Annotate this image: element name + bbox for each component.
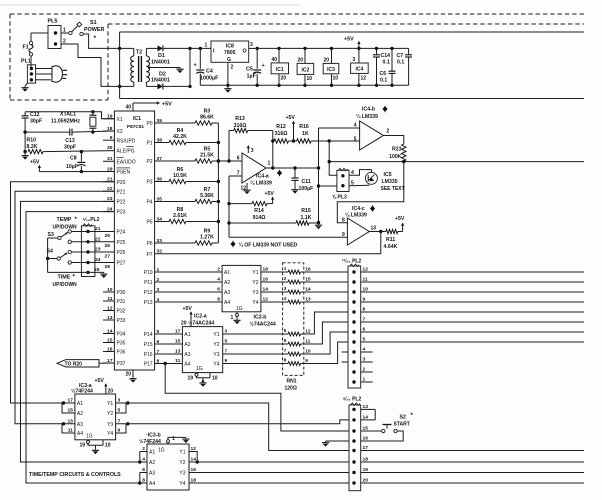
svg-text:1µF: 1µF bbox=[247, 74, 257, 80]
svg-text:D1: D1 bbox=[158, 53, 165, 59]
svg-text:P0: P0 bbox=[146, 121, 152, 127]
svg-text:C7: C7 bbox=[397, 53, 404, 59]
svg-text:R4: R4 bbox=[177, 128, 184, 134]
resistor R15 1.1K bbox=[229, 222, 296, 224]
wire PL2 pin 25 common bbox=[48, 271, 104, 273]
IC3-a Y1/Y2 join bbox=[116, 403, 126, 413]
wire R16 node down to PL3 bbox=[329, 141, 337, 175]
IC3-b A1 jog bbox=[140, 451, 147, 453]
svg-text:R12: R12 bbox=[276, 124, 286, 130]
op-amp IC4-c 1/4 LM339 bbox=[347, 218, 369, 245]
wire IC3-a Y3Y4 to PL2 pin 14 bbox=[116, 420, 349, 424]
svg-text:1N4001: 1N4001 bbox=[151, 60, 170, 66]
regulator IC8 7805 bbox=[211, 41, 249, 62]
IC3-a A2 jog bbox=[62, 403, 75, 413]
svg-text:P21: P21 bbox=[117, 189, 126, 195]
svg-text:19: 19 bbox=[80, 443, 86, 449]
svg-text:R13: R13 bbox=[235, 116, 245, 122]
svg-text:2: 2 bbox=[231, 65, 234, 71]
svg-text:17: 17 bbox=[175, 329, 181, 335]
wire IC4-a pin7 vertical bbox=[228, 176, 230, 237]
buffer IC2-b 1/2 74AC244 bbox=[222, 265, 261, 311]
IC2-b pin 1 enable to ground bbox=[236, 312, 238, 314]
svg-text:⁸⁄₂₅ PL2: ⁸⁄₂₅ PL2 bbox=[343, 397, 361, 403]
capacitor C13 30pF bbox=[69, 129, 71, 136]
svg-text:23: 23 bbox=[95, 247, 101, 253]
wire P22 bus bbox=[21, 201, 148, 462]
op-amp IC4-a 1/4 LM339 bbox=[242, 153, 266, 183]
wire P16 to IC2-a A3 bbox=[155, 353, 183, 355]
svg-text:A1: A1 bbox=[224, 270, 230, 276]
svg-text:C14: C14 bbox=[381, 53, 391, 59]
svg-text:RN1: RN1 bbox=[287, 379, 297, 385]
svg-text:C11: C11 bbox=[302, 179, 311, 185]
wire IC4-b pin 4 bbox=[319, 127, 360, 129]
svg-text:R14: R14 bbox=[254, 208, 264, 214]
wire reset row to PSEN bbox=[39, 171, 114, 173]
staircase RN1 to PL2 pins 8-5 bbox=[304, 312, 348, 334]
bypass position IC2 bbox=[303, 47, 306, 50]
wire PL5 pin1 to S1 bbox=[61, 32, 69, 34]
svg-text:316Ω: 316Ω bbox=[275, 131, 288, 137]
svg-text:100µF: 100µF bbox=[299, 186, 314, 192]
wire secondary bottom to D2 bbox=[145, 82, 147, 86]
note 1/4 LM339 not used bbox=[231, 241, 235, 247]
svg-text:IC1: IC1 bbox=[133, 116, 141, 122]
svg-text:1.1K: 1.1K bbox=[301, 215, 312, 221]
IC4-a pin 3 arrow bbox=[247, 146, 249, 153]
svg-text:8: 8 bbox=[142, 478, 145, 484]
svg-text:1.27K: 1.27K bbox=[200, 235, 214, 241]
wire IC2-b Y4 to RN1 bbox=[261, 301, 283, 303]
svg-text:7: 7 bbox=[284, 348, 287, 353]
svg-text:25: 25 bbox=[94, 267, 100, 273]
svg-text:A4: A4 bbox=[184, 362, 190, 368]
svg-text:A2: A2 bbox=[77, 411, 83, 417]
resistor ladder summing bus bbox=[217, 123, 219, 243]
svg-text:3: 3 bbox=[353, 57, 356, 63]
ground at R15 bbox=[315, 224, 322, 230]
svg-text:5: 5 bbox=[354, 137, 357, 143]
svg-text:A3: A3 bbox=[224, 290, 230, 296]
wire P11 to IC2-b A2 bbox=[155, 281, 223, 283]
svg-text:20: 20 bbox=[108, 389, 114, 395]
svg-text:+5V: +5V bbox=[183, 306, 193, 312]
svg-text:TEMP: TEMP bbox=[57, 217, 72, 223]
capacitor C14 0.1 bbox=[375, 47, 378, 50]
resistor R5 21.5K bbox=[155, 160, 195, 162]
svg-text:P32: P32 bbox=[117, 309, 126, 315]
svg-text:0.1: 0.1 bbox=[380, 78, 387, 84]
svg-text:P31: P31 bbox=[117, 299, 126, 305]
wire PL2 pin 24 to IC1 bbox=[71, 262, 114, 264]
wire IC2-a Y4 to RN1 bbox=[223, 363, 283, 365]
svg-text:P36: P36 bbox=[117, 350, 126, 356]
svg-text:6: 6 bbox=[284, 338, 287, 343]
resistor R4 42.2K bbox=[155, 142, 169, 144]
svg-text:0.1: 0.1 bbox=[397, 60, 404, 66]
+5V at R12/R16 bbox=[293, 122, 295, 141]
svg-text:S2: S2 bbox=[400, 415, 406, 421]
svg-text:Y1: Y1 bbox=[252, 270, 258, 276]
buffer IC3-a 1/2 74F244 bbox=[75, 394, 116, 440]
svg-text:30pF: 30pF bbox=[64, 145, 76, 151]
ground rail of power supply bbox=[200, 84, 408, 86]
svg-text:P14: P14 bbox=[144, 332, 153, 338]
svg-text:P5: P5 bbox=[146, 220, 152, 226]
ground at IC1 pin 20 bbox=[129, 377, 136, 383]
dashed enclosure border second line bbox=[108, 23, 584, 25]
PL2 pins 4-1 stubs bbox=[361, 351, 373, 353]
svg-text:10µF: 10µF bbox=[66, 164, 78, 170]
svg-text:R7: R7 bbox=[204, 187, 211, 193]
svg-text:IC2: IC2 bbox=[302, 68, 310, 74]
buffer IC3-b 1/2 74F244 bbox=[147, 444, 189, 490]
svg-text:R8: R8 bbox=[177, 207, 184, 213]
svg-text:P30: P30 bbox=[117, 290, 126, 296]
wire IC4-b output to R23 bbox=[383, 136, 403, 145]
svg-text:Y4: Y4 bbox=[252, 300, 258, 306]
wire IC4-c pin 9 bbox=[229, 236, 347, 238]
capacitor C4 1000uF bbox=[199, 47, 202, 50]
svg-text:24: 24 bbox=[95, 257, 101, 263]
svg-text:1G: 1G bbox=[236, 306, 243, 312]
svg-text:10: 10 bbox=[105, 443, 111, 449]
svg-text:30pF: 30pF bbox=[30, 119, 42, 125]
wire secondary top to D1 bbox=[145, 48, 147, 56]
svg-text:6: 6 bbox=[217, 287, 220, 293]
wire PL1 pins to mains plug bbox=[36, 68, 52, 70]
PL2 pins 17-20 output wires bbox=[361, 450, 584, 452]
svg-text:IC5: IC5 bbox=[384, 172, 392, 178]
svg-text:15: 15 bbox=[175, 339, 181, 345]
wire D1 output to IC8 input bbox=[163, 47, 211, 49]
svg-text:Y1: Y1 bbox=[213, 332, 219, 338]
bypass position IC3 bbox=[330, 47, 333, 50]
svg-text:2: 2 bbox=[217, 267, 220, 273]
svg-text:Y2: Y2 bbox=[107, 411, 113, 417]
svg-text:A3: A3 bbox=[149, 471, 155, 477]
svg-text:A4: A4 bbox=[149, 481, 155, 487]
svg-text:P35: P35 bbox=[117, 341, 126, 347]
svg-text:120Ω: 120Ω bbox=[285, 386, 297, 392]
svg-text:7: 7 bbox=[363, 317, 366, 323]
svg-text:C5: C5 bbox=[246, 67, 253, 73]
svg-text:3: 3 bbox=[250, 42, 253, 48]
svg-text:20: 20 bbox=[298, 58, 304, 64]
svg-text:R3: R3 bbox=[204, 109, 211, 115]
flag TO R20 bbox=[57, 360, 99, 367]
svg-text:Y1: Y1 bbox=[179, 450, 185, 456]
svg-text:P10: P10 bbox=[144, 270, 153, 276]
svg-text:+5V: +5V bbox=[95, 378, 105, 384]
svg-text:11: 11 bbox=[175, 358, 180, 364]
wire X2 row with C13 bbox=[23, 130, 26, 133]
wire P14 to IC2-a A1 bbox=[155, 333, 183, 335]
svg-text:10: 10 bbox=[307, 76, 313, 82]
resistor R3 86.6K bbox=[155, 122, 195, 124]
svg-text:START: START bbox=[394, 422, 410, 428]
svg-text:2: 2 bbox=[363, 367, 366, 373]
svg-text:P13: P13 bbox=[144, 300, 153, 306]
svg-text:¼ LM339: ¼ LM339 bbox=[345, 212, 367, 219]
resistor R9 1.27K bbox=[155, 242, 195, 244]
svg-text:Y4: Y4 bbox=[107, 431, 113, 437]
capacitor C11 100uF bbox=[294, 168, 296, 178]
capacitor C5 1uF bbox=[256, 47, 259, 50]
wire F1 to PL5 pin1 bbox=[31, 32, 48, 34]
wire ladder to IC4-a pin 6 bbox=[218, 160, 242, 162]
svg-text:⅞ PL3: ⅞ PL3 bbox=[332, 195, 347, 201]
svg-text:IC3: IC3 bbox=[327, 67, 335, 73]
resistor R7 5.36K bbox=[155, 201, 195, 203]
svg-text:+5V: +5V bbox=[162, 102, 172, 108]
svg-text:¼ LM339: ¼ LM339 bbox=[250, 180, 272, 187]
svg-text:EA/UDO: EA/UDO bbox=[117, 159, 136, 165]
svg-text:25: 25 bbox=[105, 233, 111, 239]
wire S1 to transformer primary top bbox=[83, 34, 119, 48]
ground at PL2 pin 25 bbox=[100, 272, 107, 278]
capacitor C6 0.1 bbox=[390, 47, 393, 50]
svg-text:P4: P4 bbox=[146, 200, 152, 206]
svg-text:17: 17 bbox=[67, 398, 73, 404]
svg-text:Y2: Y2 bbox=[213, 342, 219, 348]
svg-text:P34: P34 bbox=[117, 332, 126, 338]
wire IC2-b Y1 to RN1 bbox=[261, 271, 283, 273]
svg-text:Y3: Y3 bbox=[213, 352, 219, 358]
wire R13 to pin6 node bbox=[228, 131, 230, 162]
wire IC4-a output bbox=[266, 167, 319, 169]
svg-text:5: 5 bbox=[363, 337, 366, 343]
svg-text:3: 3 bbox=[251, 148, 254, 154]
wire R13 to output node bbox=[272, 131, 274, 169]
svg-text:IC1: IC1 bbox=[276, 67, 284, 73]
svg-text:C4: C4 bbox=[206, 69, 213, 75]
svg-text:P22: P22 bbox=[117, 200, 126, 206]
svg-text:13: 13 bbox=[175, 349, 181, 355]
+5V at IC2-a pin 20 bbox=[190, 312, 192, 326]
wire IC4-c output bbox=[369, 231, 386, 233]
svg-text:8: 8 bbox=[217, 297, 220, 303]
svg-text:A1: A1 bbox=[184, 332, 190, 338]
svg-text:1: 1 bbox=[284, 266, 287, 271]
svg-text:1000µF: 1000µF bbox=[200, 76, 219, 82]
svg-text:¹²⁄₂₅ PL2: ¹²⁄₂₅ PL2 bbox=[342, 259, 361, 265]
svg-text:R16: R16 bbox=[299, 124, 309, 130]
svg-text:1: 1 bbox=[205, 43, 208, 49]
+5V rail bbox=[257, 47, 408, 49]
svg-text:R10: R10 bbox=[27, 138, 37, 144]
wire P17 to PL2 pin 15 bbox=[164, 362, 167, 365]
svg-text:Y4: Y4 bbox=[179, 481, 185, 487]
mains enclosure dashed box bbox=[9, 14, 11, 100]
resistor R12 316ohm bbox=[274, 139, 289, 143]
svg-text:Y4: Y4 bbox=[213, 362, 219, 368]
svg-text:+5V: +5V bbox=[286, 115, 296, 121]
wire PL3 pin5 row bbox=[319, 185, 337, 187]
svg-text:X1: X1 bbox=[117, 117, 123, 123]
svg-text:20: 20 bbox=[324, 58, 330, 64]
svg-text:+5V: +5V bbox=[395, 216, 405, 222]
svg-text:UP/DOWN: UP/DOWN bbox=[53, 282, 78, 288]
svg-text:8: 8 bbox=[363, 307, 366, 313]
svg-text:R15: R15 bbox=[301, 208, 311, 214]
temperature sensor IC5 LM335 bbox=[365, 172, 377, 184]
resistor R23 100K bbox=[402, 144, 406, 161]
ground at PL1 bbox=[25, 83, 27, 86]
svg-text:C12: C12 bbox=[30, 112, 40, 118]
svg-text:9: 9 bbox=[363, 297, 366, 303]
svg-text:C13: C13 bbox=[65, 138, 75, 144]
svg-text:10: 10 bbox=[212, 376, 218, 382]
svg-text:O: O bbox=[243, 49, 247, 55]
svg-text:13: 13 bbox=[371, 226, 377, 232]
resistor R11 4.64K bbox=[386, 229, 398, 233]
svg-text:Y2: Y2 bbox=[252, 280, 258, 286]
PL2 pins 13/14 stubs bbox=[361, 408, 376, 410]
svg-text:10.5K: 10.5K bbox=[173, 173, 187, 179]
node mains to primary top bbox=[118, 47, 121, 50]
+5V at R11 bbox=[402, 224, 404, 232]
svg-text:P2: P2 bbox=[146, 159, 152, 165]
svg-text:·IC3-b: ·IC3-b bbox=[146, 433, 161, 439]
wire D2 output join bbox=[163, 85, 190, 87]
wire P17 to IC2-a A4 bbox=[155, 363, 183, 365]
svg-text:P17: P17 bbox=[144, 362, 153, 368]
svg-text:P27: P27 bbox=[117, 261, 126, 267]
wire IC3-b Y3 to PL2 pin 19 bbox=[189, 472, 349, 474]
svg-text:S1: S1 bbox=[90, 20, 97, 26]
svg-text:Y1: Y1 bbox=[107, 401, 113, 407]
svg-text:IC4-b: IC4-b bbox=[362, 107, 375, 113]
svg-text:21: 21 bbox=[95, 226, 101, 232]
svg-text:R11: R11 bbox=[386, 237, 395, 243]
wire P15 to IC2-a A2 bbox=[155, 343, 183, 345]
svg-text:IC8: IC8 bbox=[226, 44, 234, 50]
svg-text:F1: F1 bbox=[23, 45, 29, 51]
svg-text:1G: 1G bbox=[158, 448, 165, 454]
svg-text:IC2-a: IC2-a bbox=[194, 314, 207, 320]
svg-text:4.64K: 4.64K bbox=[384, 244, 398, 250]
power supply box left border bbox=[119, 32, 121, 99]
svg-text:P3: P3 bbox=[146, 180, 152, 186]
wire PL3 pin4 to IC5 bbox=[349, 170, 371, 176]
svg-text:R23: R23 bbox=[392, 147, 402, 153]
capacitor C12 30pF bbox=[24, 112, 26, 116]
svg-text:1: 1 bbox=[363, 377, 366, 383]
svg-text:RS/UPD: RS/UPD bbox=[117, 138, 136, 144]
wire IC2-b Y3 to RN1 bbox=[261, 291, 283, 293]
microcontroller IC1 P87C751 bbox=[114, 111, 154, 370]
IC3-b A3 jog bbox=[140, 472, 147, 474]
wire IC2-a Y3 to RN1 bbox=[223, 353, 283, 355]
svg-text:2: 2 bbox=[387, 129, 390, 135]
svg-text:X2: X2 bbox=[117, 129, 123, 135]
svg-text:P20: P20 bbox=[117, 180, 126, 186]
wire R23 node to IC4-c pin 8 bbox=[337, 162, 404, 223]
svg-text:½74AC244: ½74AC244 bbox=[250, 321, 276, 328]
svg-text:8: 8 bbox=[284, 358, 287, 363]
wire IC2-a Y1 to RN1 bbox=[223, 333, 283, 335]
wire P12 to IC2-b A3 bbox=[155, 291, 223, 293]
svg-text:3: 3 bbox=[284, 286, 287, 291]
svg-text:P25: P25 bbox=[117, 240, 126, 246]
wire P21 bus bbox=[15, 191, 114, 424]
mains plug bbox=[52, 66, 62, 82]
svg-text:P12: P12 bbox=[144, 290, 153, 296]
wire IC3-b Y4 to PL2 pin 20 bbox=[189, 482, 349, 484]
svg-text:A2: A2 bbox=[149, 460, 155, 466]
svg-text:22: 22 bbox=[95, 237, 101, 243]
resistor R16 1K bbox=[297, 139, 312, 143]
svg-text:P16: P16 bbox=[144, 352, 153, 358]
svg-text:Y2: Y2 bbox=[179, 460, 185, 466]
svg-text:P23: P23 bbox=[117, 210, 126, 216]
svg-text:19: 19 bbox=[188, 376, 194, 382]
svg-text:Y3: Y3 bbox=[252, 290, 258, 296]
svg-text:Y3: Y3 bbox=[107, 422, 113, 428]
connector PL2 pins 21-25 bbox=[81, 226, 95, 277]
wire PL2 pin 23 to IC1 bbox=[71, 251, 114, 253]
svg-text:316Ω: 316Ω bbox=[234, 123, 247, 129]
svg-text:POWER: POWER bbox=[84, 27, 104, 33]
svg-text:12: 12 bbox=[361, 76, 367, 82]
dashed enclosure border top bbox=[10, 13, 584, 15]
svg-text:28: 28 bbox=[105, 264, 111, 270]
connector PL3 bbox=[337, 170, 349, 191]
svg-text:P11: P11 bbox=[144, 280, 153, 286]
ground at IC8 bbox=[224, 87, 231, 93]
wire IC4-c output to P7 bbox=[155, 232, 381, 254]
svg-text:XTAL1: XTAL1 bbox=[60, 112, 76, 118]
svg-text:P24: P24 bbox=[117, 230, 126, 236]
wire P13 to IC2-b A4 bbox=[155, 301, 223, 303]
svg-text:7805: 7805 bbox=[224, 50, 236, 56]
bypass position IC1 bbox=[277, 47, 280, 50]
diode D2 1N4001 bbox=[158, 83, 163, 89]
svg-text:UP/DOWN: UP/DOWN bbox=[53, 225, 78, 231]
svg-text:P87C51: P87C51 bbox=[127, 124, 144, 129]
svg-text:A1: A1 bbox=[149, 450, 155, 456]
svg-text:P1: P1 bbox=[146, 141, 152, 147]
svg-text:PL5: PL5 bbox=[48, 19, 58, 25]
svg-text:C6: C6 bbox=[380, 71, 387, 77]
svg-text:LM335: LM335 bbox=[382, 179, 398, 185]
svg-text:½74F244: ½74F244 bbox=[71, 388, 93, 395]
svg-text:¼ LM339: ¼ LM339 bbox=[356, 113, 378, 120]
svg-text:A3: A3 bbox=[184, 352, 190, 358]
svg-text:A4: A4 bbox=[224, 300, 230, 306]
svg-text:R9: R9 bbox=[204, 229, 211, 235]
ground below R10 bbox=[24, 152, 26, 154]
svg-text:8.2K: 8.2K bbox=[27, 144, 38, 150]
power supply box top border bbox=[120, 31, 584, 33]
resistor R13 316ohm bbox=[229, 130, 234, 132]
diode D1 1N4001 bbox=[158, 45, 163, 51]
svg-text:1N4001: 1N4001 bbox=[151, 78, 170, 84]
bypass position IC4 bbox=[357, 47, 360, 50]
svg-text:5: 5 bbox=[284, 328, 287, 333]
wire to transformer primary bbox=[120, 47, 134, 49]
svg-text:R5: R5 bbox=[204, 147, 211, 153]
svg-text:6: 6 bbox=[237, 156, 240, 162]
wire PL5 pin2 to transformer primary bottom bbox=[61, 44, 120, 86]
wire IC3-a Y1Y2 to PL2 pin 17 bbox=[116, 403, 349, 451]
svg-text:R6: R6 bbox=[177, 167, 184, 173]
svg-text:6: 6 bbox=[363, 327, 366, 333]
svg-text:C8: C8 bbox=[70, 156, 77, 162]
svg-text:P7: P7 bbox=[146, 252, 152, 258]
